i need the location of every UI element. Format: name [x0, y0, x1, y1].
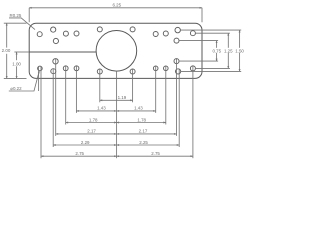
hole left C top — [53, 38, 58, 43]
hole left B2 top — [63, 31, 68, 36]
hole left C bottom — [53, 59, 58, 64]
svg-text:2.00: 2.00 — [2, 48, 11, 53]
right dim 1.50 extension bottom — [181, 70, 242, 72]
bottom dim row3 left line 2.17 — [56, 133, 117, 135]
bottom ext line hole 39.8 right — [40, 66, 42, 158]
right dim 0.75 extension bottom — [179, 60, 218, 62]
bottom ext line hole A right — [178, 69, 180, 147]
centerline left half — [29, 51, 96, 53]
svg-text:0.75: 0.75 — [212, 49, 221, 54]
bottom ext line hole B2 right — [165, 66, 167, 125]
svg-text:1.50: 1.50 — [235, 49, 244, 54]
svg-text:1.78: 1.78 — [137, 117, 146, 122]
top width dim extension left — [28, 8, 30, 22]
hole right B2 top — [163, 31, 168, 36]
svg-text:⌀0.22: ⌀0.22 — [10, 86, 22, 91]
svg-text:1.43: 1.43 — [134, 106, 143, 111]
bottom ext line hole C left — [55, 59, 57, 136]
svg-text:2.25: 2.25 — [139, 140, 148, 145]
right dim 1.25 line upper — [227, 33, 229, 48]
svg-text:1.78: 1.78 — [89, 117, 98, 122]
left half-height dim line 1.00 lower — [16, 66, 18, 78]
svg-text:1.43: 1.43 — [97, 106, 106, 111]
bottom ext line hole 39.8 left — [38, 66, 40, 91]
corner radius leader — [9, 18, 35, 30]
bottom dim row2 right line 1.78 — [117, 122, 166, 124]
hole right C bottom — [174, 59, 179, 64]
bottom dim row1 right line 1.43 — [117, 110, 156, 112]
bottom ext line bolt left — [99, 69, 101, 102]
bottom ext line hole B2 left — [65, 66, 67, 125]
svg-text:2.17: 2.17 — [139, 129, 148, 134]
bolt hole top-right — [130, 27, 135, 32]
plate outline — [29, 23, 202, 78]
right dim 0.75 line upper — [216, 41, 218, 48]
bottom dim row0 line 1.19 — [100, 99, 133, 101]
right dim 1.25 extension top — [195, 32, 230, 34]
hole right A bottom — [176, 69, 181, 74]
top width dimension line — [29, 7, 202, 9]
right dim 1.50 extension top — [180, 29, 241, 31]
svg-text:6.25: 6.25 — [112, 2, 121, 7]
hole left A top — [51, 27, 56, 32]
svg-text:1.19: 1.19 — [118, 95, 127, 100]
right dim 1.25 extension bottom — [195, 67, 230, 69]
hole left B1 bottom — [38, 66, 43, 71]
bolt hole bottom-right — [130, 69, 135, 74]
svg-text:2.29: 2.29 — [81, 140, 90, 145]
svg-text:2.75: 2.75 — [151, 151, 160, 156]
svg-text:1.00: 1.00 — [12, 61, 21, 66]
right dim 1.50 line upper — [239, 30, 241, 48]
hole right B3 bottom — [190, 66, 195, 71]
hole right A top — [175, 27, 180, 32]
bottom dim row4 left line 2.29 — [53, 144, 116, 146]
svg-text:2.17: 2.17 — [87, 129, 96, 134]
hole right C top — [174, 38, 179, 43]
hole left B3 top — [74, 31, 79, 36]
hole right B1 bottom — [153, 66, 158, 71]
svg-text:1.25: 1.25 — [224, 49, 233, 54]
hole left B1 top — [37, 32, 42, 37]
bolt hole top-left — [97, 27, 102, 32]
bottom ext line hole B3 left — [75, 66, 77, 113]
left height dim line 2.00 upper — [6, 23, 8, 47]
hole right B2 bottom — [164, 66, 169, 71]
hole left B3 bottom — [74, 66, 79, 71]
hole left A bottom — [51, 69, 56, 74]
left half-height dim extension — [14, 51, 29, 53]
svg-text:2.75: 2.75 — [75, 151, 84, 156]
bottom ext line center — [116, 71, 118, 158]
hole right B3 top — [190, 31, 195, 36]
right dim 0.75 extension top — [179, 40, 218, 42]
bolt hole bottom-left — [97, 69, 102, 74]
bottom dim row5 right line 2.75 — [117, 155, 193, 157]
hole left B2 bottom — [63, 66, 68, 71]
svg-text:R0.25: R0.25 — [10, 13, 22, 18]
bottom dim row5 left line 2.75 — [41, 155, 117, 157]
bottom dim row2 left line 1.78 — [66, 122, 117, 124]
bottom ext line hole B3 right — [192, 66, 194, 158]
bottom ext line bolt right — [132, 69, 134, 102]
left height dim line 2.00 lower — [6, 54, 8, 79]
bottom dim row1 left line 1.43 — [76, 110, 116, 112]
bottom dim row3 right line 2.17 — [117, 133, 177, 135]
right dim 1.25 line lower — [227, 53, 229, 69]
bottom ext line hole B1 right — [155, 66, 157, 113]
bottom ext line hole C right — [176, 59, 178, 136]
bottom dim row4 right line 2.25 — [117, 144, 180, 146]
left half-height dim line 1.00 upper — [16, 52, 18, 60]
hole right B1 top — [153, 32, 158, 37]
left height dim extension top — [4, 22, 27, 24]
right dim 0.75 line lower — [216, 53, 218, 61]
hole diameter leader — [9, 71, 40, 91]
big circle — [96, 31, 137, 72]
bottom ext line hole A left — [52, 69, 54, 147]
top width dim extension right — [201, 8, 203, 22]
right dim 1.50 line lower — [239, 53, 241, 72]
left height dim extension bottom — [4, 77, 27, 79]
